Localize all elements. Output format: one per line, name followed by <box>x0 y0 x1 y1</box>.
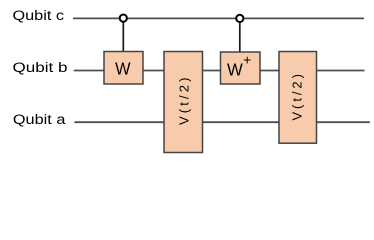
svg-text:Qubit b: Qubit b <box>13 60 68 75</box>
wire qubit b <box>74 70 365 72</box>
gate W dagger <box>221 52 261 84</box>
gate V(t/2) first <box>164 52 203 153</box>
wire control stem 1 <box>122 22 124 52</box>
svg-text:W: W <box>115 58 131 78</box>
label Qubit b <box>13 60 68 75</box>
svg-text:Qubit c: Qubit c <box>13 8 65 23</box>
label Qubit c <box>13 8 65 23</box>
gate W <box>104 52 143 85</box>
wire control stem 2 <box>239 23 241 53</box>
control node 1 (open circle on qubit c) <box>120 15 127 22</box>
svg-text:Qubit a: Qubit a <box>13 112 66 127</box>
wire qubit c <box>73 17 364 19</box>
svg-text:W: W <box>227 60 243 80</box>
svg-text:+: + <box>243 52 251 67</box>
gate V(t/2) second <box>279 52 317 144</box>
label Qubit a <box>13 112 66 127</box>
wire qubit a <box>74 121 369 123</box>
control node 2 (open circle on qubit c) <box>236 15 243 22</box>
